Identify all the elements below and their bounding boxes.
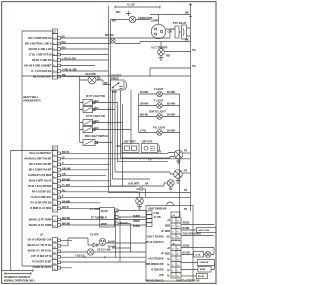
svg-text:FF FT LIGHT SW: FF FT LIGHT SW: [86, 95, 106, 98]
svg-text:BK-BL: BK-BL: [62, 151, 70, 154]
svg-text:TU/C DRD BUDB: TU/C DRD BUDB: [183, 234, 202, 236]
svg-text:C2 TA: C2 TA: [195, 253, 201, 256]
svg-text:DAICY FB BDB: DAICY FB BDB: [147, 236, 164, 239]
compressor U1: [151, 24, 165, 38]
svg-text:WDB: WDB: [101, 223, 107, 226]
cabinet left edge: [22, 31, 53, 266]
svg-text:TIMER: TIMER: [111, 78, 119, 81]
wire: [182, 172, 190, 174]
svg-text:BU-WH: BU-WH: [167, 91, 176, 94]
svg-text:GB/B THRBB BB: GB/B THRBB BB: [148, 209, 167, 211]
lamp L2: [157, 103, 163, 109]
wire J1 row2: [61, 158, 191, 160]
wire: [80, 123, 132, 130]
svg-text:L-RD AL-RD: L-RD AL-RD: [62, 58, 76, 61]
border frame: [2, 2, 216, 284]
wire center bus B: [110, 20, 112, 187]
wire drop a: [116, 211, 119, 257]
svg-text:BU-DB: BU-DB: [183, 253, 191, 255]
svg-text:AL BB: AL BB: [154, 216, 161, 219]
svg-text:6: 6: [172, 254, 173, 256]
door switch S1: [83, 100, 93, 106]
svg-text:BD BB: BD BB: [198, 276, 205, 278]
aux box 3: [198, 260, 215, 266]
heater box 2: [194, 252, 204, 258]
svg-text:DEF THST: DEF THST: [124, 141, 136, 144]
wire timer drops: [113, 90, 132, 187]
svg-text:-AB CTRCBDB: -AB CTRCBDB: [147, 258, 163, 261]
wire J2 row7: [61, 70, 109, 72]
wire: [181, 275, 197, 277]
svg-text:BU: BU: [62, 36, 66, 39]
lamp L4: [157, 130, 163, 136]
svg-text:DHBR BR: DHBR BR: [200, 262, 209, 264]
svg-text:BU-GY: BU-GY: [120, 222, 128, 225]
svg-text:BK: BK: [185, 11, 189, 15]
svg-text:GYP 17 DEF HT BI: GYP 17 DEF HT BI: [31, 255, 52, 258]
svg-text:7: 7: [172, 260, 173, 262]
svg-text:TB: TB: [184, 189, 187, 192]
wire J1 row9: [61, 196, 191, 198]
svg-text:BK: BK: [62, 74, 66, 77]
svg-text:LP: LP: [40, 234, 43, 237]
svg-text:8: 8: [172, 265, 173, 267]
svg-text:AR-BN-M 2 DEF FAN MT: AR-BN-M 2 DEF FAN MT: [24, 158, 52, 161]
wire: [80, 142, 113, 144]
svg-text:7: 7: [53, 187, 54, 189]
svg-text:DOR FZ LIGHT: DOR FZ LIGHT: [149, 111, 166, 114]
svg-text:OR-WH: OR-WH: [140, 103, 149, 106]
svg-text:WH: WH: [117, 145, 121, 148]
connector J2: [53, 29, 58, 34]
wire: [181, 235, 214, 237]
divider wire cabinet top: [22, 75, 191, 77]
wire J2 row6: [61, 65, 96, 67]
svg-text:WH-BL-GY YW 15 DH: WH-BL-GY YW 15 DH: [27, 244, 51, 247]
dimension line 4.1 SC: [115, 6, 160, 9]
svg-text:BU-WH: BU-WH: [167, 103, 176, 106]
door switch S2: [83, 107, 93, 113]
svg-text:YL-WH: YL-WH: [62, 184, 70, 187]
svg-text:15: 15: [53, 247, 55, 249]
PTC relay RC: [175, 26, 179, 38]
wire: [181, 263, 215, 270]
wire bend b: [118, 161, 169, 163]
control module box: [146, 206, 193, 282]
auger thermostat TH1: [136, 187, 146, 197]
svg-text:AC CTR WTR: AC CTR WTR: [151, 46, 168, 50]
svg-text:17: 17: [53, 258, 55, 260]
lamp cord light: [129, 16, 135, 22]
svg-text:BIV KD-DBN CD: BIV KD-DBN CD: [146, 281, 164, 283]
svg-text:NORMAL OPERATION ONLY: NORMAL OPERATION ONLY: [4, 280, 35, 283]
svg-text:13: 13: [53, 226, 55, 228]
svg-text:TB: TB: [158, 151, 161, 154]
wire icemaker row1: [118, 210, 146, 212]
wire icemaker row2: [118, 216, 146, 218]
svg-text:DEF HTR: DEF HTR: [142, 141, 153, 144]
wire J2 row8: [61, 76, 101, 78]
svg-text:WH-BK 12 FF THRM: WH-BK 12 FF THRM: [29, 219, 52, 222]
svg-text:TB: TB: [192, 64, 196, 68]
wire bend f: [109, 192, 191, 194]
svg-text:BDB MDGBA BD: BDB MDGBA BD: [145, 263, 164, 266]
svg-text:2: 2: [172, 226, 173, 228]
thermal fuse: [93, 243, 97, 247]
svg-text:WH-1 LN NEUTRAL: WH-1 LN NEUTRAL: [29, 152, 52, 155]
wire: [11, 150, 53, 152]
svg-text:AH-BN-W 5 ICE MKR: AH-BN-W 5 ICE MKR: [28, 174, 52, 177]
svg-text:IO: IO: [62, 156, 65, 159]
svg-text:WH-BK: WH-BK: [140, 114, 149, 117]
text labels: [112, 3, 196, 69]
svg-text:3: 3: [53, 48, 54, 50]
svg-text:10: 10: [172, 276, 174, 278]
lamp L1: [157, 91, 163, 97]
water valve V1: [174, 150, 183, 159]
svg-text:LB-NB 19 LID HT: LB-NB 19 LID HT: [32, 266, 52, 269]
svg-text:3: 3: [172, 232, 173, 234]
wire bend a: [121, 157, 175, 159]
svg-text:BK: BK: [185, 38, 189, 42]
svg-text:TER: TER: [112, 91, 117, 94]
svg-text:B GBD BDI: B GBD BDI: [152, 270, 164, 272]
freezer light switch S5: [83, 140, 95, 146]
wire J1 row4: [61, 169, 109, 171]
wire J2 row3: [61, 48, 109, 50]
wire J1 row8: [61, 191, 137, 193]
ground strap: [2, 269, 33, 272]
svg-text:F LIGHT: F LIGHT: [154, 100, 164, 103]
svg-text:BU-WH: BU-WH: [167, 114, 176, 117]
svg-text:J5: J5: [172, 243, 174, 245]
defrost timer T1: [111, 80, 125, 90]
aux box 1: [197, 228, 217, 233]
svg-text:16: 16: [53, 252, 55, 254]
connector J1: [53, 146, 58, 151]
svg-text:SCHEMATIC SHOWN IN: SCHEMATIC SHOWN IN: [4, 276, 30, 279]
svg-text:PU: PU: [62, 189, 66, 192]
wire: [181, 247, 214, 249]
svg-text:PTC RC+R: PTC RC+R: [173, 21, 186, 25]
freezer light L5: [87, 249, 93, 255]
svg-text:TB: TB: [192, 48, 196, 52]
pin boxes J1: [58, 152, 61, 269]
svg-text:5: 5: [172, 249, 173, 251]
wire: [166, 28, 191, 36]
svg-text:RD: RD: [104, 82, 108, 85]
dispenser lamp L6: [205, 252, 211, 258]
svg-text:5: 5: [53, 176, 54, 178]
svg-text:BU-WH: BU-WH: [140, 91, 149, 94]
svg-text:C BB: C BB: [154, 213, 160, 215]
svg-text:YL 7 AUX FAN SW: YL 7 AUX FAN SW: [31, 70, 52, 73]
wire center bus A: [108, 6, 110, 193]
dispenser box B: [142, 144, 158, 153]
svg-text:BK: BK: [167, 237, 171, 239]
svg-text:GN 14 GROUND CAB: GN 14 GROUND CAB: [27, 239, 51, 242]
svg-text:BDB: BDB: [165, 226, 170, 228]
svg-text:9: 9: [53, 198, 54, 200]
svg-text:WH: WH: [95, 127, 99, 130]
svg-text:WH-OR 3 LINE 1 CM: WH-OR 3 LINE 1 CM: [29, 48, 52, 51]
svg-text:WH-BL-GY YW 16 DL: WH-BL-GY YW 16 DL: [28, 250, 52, 253]
svg-text:BU-WH: BU-WH: [167, 130, 176, 133]
svg-text:B-BNB 11 LO SIDE: B-BNB 11 LO SIDE: [30, 207, 52, 210]
wire: [61, 261, 147, 263]
wire: [80, 80, 111, 85]
svg-text:TDBB: TDBB: [133, 220, 140, 223]
svg-text:5: 5: [53, 59, 54, 61]
wire: [80, 103, 118, 110]
switch pin boxes: [93, 101, 96, 103]
wire BK top: [150, 14, 191, 16]
svg-text:ATB: ATB: [159, 274, 164, 277]
svg-text:DK-BL 5 ADP SW: DK-BL 5 ADP SW: [32, 59, 52, 62]
wire: [181, 248, 214, 255]
svg-text:UB: UB: [62, 173, 66, 176]
lamp L3: [157, 114, 163, 120]
svg-text:1: 1: [53, 37, 54, 39]
wire: [61, 251, 147, 253]
svg-text:+B: +B: [160, 253, 163, 255]
svg-text:LT-BL: LT-BL: [140, 130, 147, 133]
svg-text:BU-W: BU-W: [101, 210, 108, 213]
svg-text:BUDB: BUDB: [183, 228, 190, 230]
svg-text:WH WH: WH WH: [105, 34, 114, 37]
aux motor M3: [167, 180, 174, 187]
wire J1 row3: [61, 163, 111, 165]
wire J2 row4: [61, 54, 109, 56]
svg-text:+B: +B: [160, 231, 163, 233]
svg-text:WH: WH: [116, 10, 120, 14]
svg-text:ADJ MTR: ADJ MTR: [85, 73, 96, 76]
svg-text:BN-WH: BN-WH: [62, 200, 71, 203]
svg-text:BK: BK: [112, 19, 116, 23]
svg-text:BDB: BDB: [165, 254, 170, 256]
svg-text:PA-G 8 DISP SOL: PA-G 8 DISP SOL: [32, 191, 52, 194]
svg-text:PH-M 7 AUG MOTOR: PH-M 7 AUG MOTOR: [28, 185, 52, 188]
svg-text:6: 6: [53, 182, 54, 184]
wire J1 row1: [61, 152, 175, 155]
svg-text:PU-10 DR HTR SW: PU-10 DR HTR SW: [31, 202, 53, 205]
svg-text:+B: +B: [167, 220, 170, 222]
wire: [112, 247, 131, 249]
wire: [165, 51, 191, 53]
svg-text:FVL LIGHT: FVL LIGHT: [153, 127, 166, 130]
wire vertical switch bus: [79, 76, 81, 142]
svg-text:BUDB: BUDB: [133, 225, 140, 228]
wire bend e: [111, 183, 168, 186]
svg-text:F LIGHT: F LIGHT: [154, 88, 164, 91]
wire: [181, 225, 214, 231]
svg-text:WH-B: WH-B: [62, 206, 69, 209]
module connector strip: [171, 212, 180, 217]
svg-text:DIU ALATICIFCU: DIU ALATICIFCU: [145, 241, 163, 244]
wire icemaker row3: [118, 223, 131, 225]
wire J1 row7: [61, 185, 137, 187]
svg-text:19: 19: [53, 269, 55, 271]
svg-text:TB: TB: [184, 150, 187, 153]
defrost motor M1: [88, 76, 96, 84]
svg-text:18: 18: [53, 263, 55, 265]
svg-text:ADGB: ADGB: [183, 222, 190, 225]
wire: [61, 256, 147, 258]
svg-text:WH: WH: [95, 107, 99, 110]
svg-text:11: 11: [53, 209, 55, 211]
wire J2 row5: [61, 59, 109, 61]
scale bar: [5, 272, 31, 275]
wire: [150, 68, 191, 76]
svg-text:CM: CM: [168, 30, 172, 34]
aux box 4: [198, 267, 211, 273]
svg-text:BN-WH: BN-WH: [62, 178, 71, 181]
svg-text:2: 2: [53, 43, 54, 45]
svg-text:2: 2: [53, 160, 54, 162]
wire J1 row11: [61, 207, 100, 209]
bracket: [159, 145, 160, 152]
left bus: [10, 151, 12, 271]
svg-text:GN-YW: GN-YW: [62, 167, 71, 170]
wire: [139, 132, 180, 134]
svg-text:+B: +B: [167, 248, 170, 250]
svg-text:ADGB: ADGB: [183, 245, 190, 248]
svg-text:PU 18 DEF BI MT: PU 18 DEF BI MT: [32, 261, 52, 264]
AC outlet E1: [158, 49, 165, 56]
wire: [139, 105, 180, 107]
junction lamp top: [110, 38, 115, 43]
svg-text:LT-BL 4 DEF HTR BI: LT-BL 4 DEF HTR BI: [29, 54, 52, 57]
svg-text:TB: TB: [184, 170, 187, 173]
svg-text:4.1 SC: 4.1 SC: [127, 3, 135, 7]
svg-text:8: 8: [53, 193, 54, 195]
svg-text:MU 3 EVAP FAN MT: MU 3 EVAP FAN MT: [29, 163, 52, 166]
wire J2 row2: [61, 42, 141, 44]
svg-text:J: J: [177, 271, 178, 273]
svg-text:COMP: COMP: [151, 19, 159, 23]
svg-text:BDBB: BDBB: [200, 269, 206, 271]
svg-text:Y DZ-LB: Y DZ-LB: [75, 254, 85, 257]
svg-text:WH: WH: [62, 47, 66, 50]
svg-text:WH: WH: [95, 120, 99, 123]
wire J1 row6: [61, 180, 111, 182]
svg-text:RD: RD: [166, 54, 170, 58]
svg-text:3: 3: [53, 165, 54, 167]
svg-text:FZ FT LIGHT SW: FZ FT LIGHT SW: [86, 115, 106, 118]
svg-text:6: 6: [53, 65, 54, 67]
module sub connector: [147, 211, 153, 215]
wire drop b: [120, 217, 131, 262]
svg-text:BK: BK: [145, 183, 149, 186]
fuse F1: [126, 11, 131, 16]
wire: [111, 19, 151, 21]
wire FF therm: [61, 219, 147, 221]
svg-text:YL-W 9 CUBE SOL: YL-W 9 CUBE SOL: [30, 196, 52, 199]
door switch S3: [83, 120, 93, 126]
svg-text:GN-YW 6 GND CABINET: GN-YW 6 GND CABINET: [24, 65, 52, 68]
wire: [139, 93, 180, 95]
svg-text:AD CU LAM: AD CU LAM: [97, 249, 110, 252]
wire J2 row1: [61, 29, 176, 38]
svg-text:FF THERM: FF THERM: [91, 217, 103, 220]
svg-text:FRZ LIGHT SWITCH: FRZ LIGHT SWITCH: [85, 135, 108, 138]
svg-text:WH-BK 13 FZ THRM: WH-BK 13 FZ THRM: [29, 224, 52, 227]
svg-text:GROUND PATH: GROUND PATH: [23, 100, 41, 103]
svg-text:MU-B 6 WTR VALVE: MU-B 6 WTR VALVE: [29, 180, 52, 183]
svg-text:RD 1 COMP RUN CR: RD 1 COMP RUN CR: [28, 37, 51, 40]
wire J1 row5: [61, 174, 107, 176]
svg-text:7: 7: [53, 70, 54, 72]
right bus: [190, 5, 192, 212]
defrost heater R1: [99, 239, 106, 246]
svg-text:10: 10: [53, 204, 55, 206]
svg-text:BK 8 LINE IN HT: BK 8 LINE IN HT: [33, 76, 52, 79]
aux box 5: [197, 274, 208, 279]
door switch S4: [83, 127, 93, 133]
svg-text:FZ HTR: FZ HTR: [90, 234, 99, 237]
wire J1 row10: [61, 202, 101, 204]
svg-text:BUDB: BUDB: [133, 215, 140, 218]
wire: [181, 262, 198, 264]
svg-text:WH: WH: [95, 100, 99, 103]
svg-text:FZ TRFM: FZ TRFM: [90, 208, 100, 211]
svg-text:1: 1: [53, 154, 54, 156]
svg-text:AUG MTR: AUG MTR: [128, 183, 139, 186]
svg-text:RD: RD: [97, 78, 101, 81]
wire defrost heater feed: [61, 238, 94, 246]
wire BK mid: [140, 41, 191, 43]
svg-text:BDB: BDB: [165, 231, 170, 233]
wire: [139, 116, 180, 118]
wire: [183, 152, 191, 154]
svg-text:9: 9: [172, 271, 173, 273]
svg-text:WH-BK: WH-BK: [62, 217, 71, 220]
svg-text:A-MB AL-MB: A-MB AL-MB: [62, 69, 77, 72]
pin boxes J2: [58, 37, 61, 40]
svg-text:12: 12: [53, 220, 55, 222]
lamp bus: [139, 94, 180, 217]
svg-text:BD 4 COND FAN MT: BD 4 COND FAN MT: [29, 169, 52, 172]
wire stub: [61, 240, 73, 267]
svg-text:TB: TB: [184, 208, 187, 211]
svg-text:WH: WH: [62, 41, 66, 44]
icemaker connector: [100, 208, 115, 228]
wire FZ therm: [61, 224, 147, 226]
svg-text:8: 8: [53, 76, 54, 78]
dispenser box A: [122, 144, 139, 153]
svg-text:BU-W: BU-W: [108, 241, 115, 244]
svg-text:1: 1: [172, 221, 173, 223]
water valve V2: [174, 170, 183, 179]
svg-text:GA/GTY BDL: GA/GTY BDL: [198, 229, 210, 232]
wire bend c: [115, 172, 174, 174]
svg-text:WH 2 NEUTRAL LINE N: WH 2 NEUTRAL LINE N: [25, 43, 52, 46]
svg-text:WH-BK: WH-BK: [62, 223, 71, 226]
svg-text:GVBTT ACTBTBR DB: GVBTT ACTBTBR DB: [176, 279, 200, 282]
wire bend d: [113, 178, 151, 180]
bus junction dots: [190, 4, 192, 6]
auger motor M2: [136, 197, 144, 205]
